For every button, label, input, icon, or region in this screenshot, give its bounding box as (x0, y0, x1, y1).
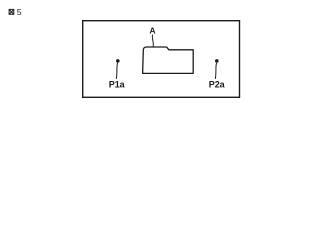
outer rectangle (substrate outline) (83, 21, 240, 98)
point P2a dot (215, 59, 219, 63)
point P1a dot (116, 59, 120, 63)
svg-text:P2a: P2a (209, 79, 226, 89)
leader line from A to region (152, 35, 153, 47)
figure label 図 box glyph (9, 9, 14, 14)
svg-text:A: A (149, 26, 155, 36)
leader line from P1a dot (116, 63, 117, 79)
svg-text:5: 5 (17, 7, 22, 17)
leader line from P2a dot (215, 63, 216, 79)
svg-text:P1a: P1a (109, 79, 126, 89)
region A outline (stepped rectangle) (143, 47, 194, 73)
